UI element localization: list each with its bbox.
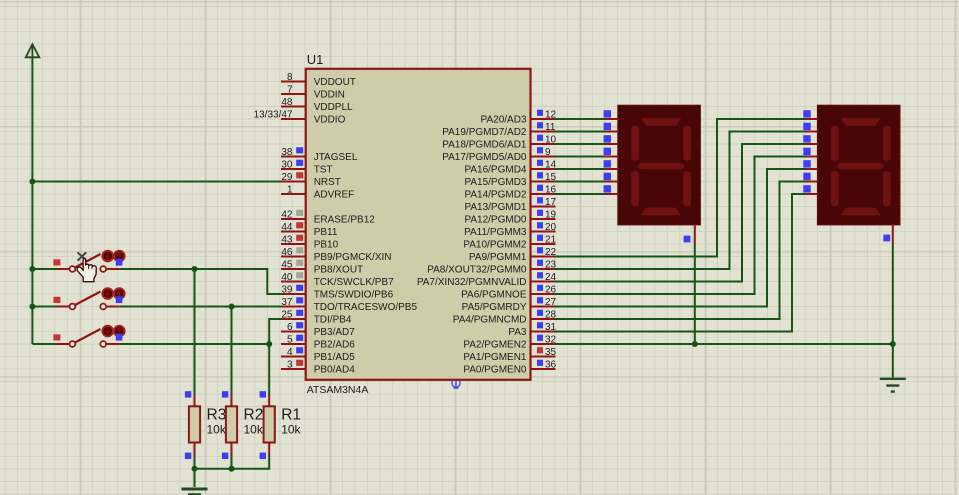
svg-text:11: 11 <box>545 122 556 133</box>
svg-text:VDDPLL: VDDPLL <box>314 102 353 113</box>
pin 5 PB2/AD6 <box>281 335 355 351</box>
pin DS1 segment 1 stub <box>604 110 619 119</box>
svg-text:PA19/PGMD7/AD2: PA19/PGMD7/AD2 <box>442 127 527 138</box>
svg-text:10k: 10k <box>244 423 264 437</box>
switch SW2 <box>53 288 124 309</box>
pin 25 TDI/PB4 <box>281 310 352 326</box>
svg-text:PA11/PGMM3: PA11/PGMM3 <box>464 227 527 238</box>
node junction SW2/R2 <box>229 304 235 310</box>
svg-text:43: 43 <box>281 235 293 246</box>
wire chip to DS1 segment 5 <box>555 168 606 170</box>
pin 35 PA1/PGMEN1 <box>463 347 556 363</box>
wire R3 riser <box>194 269 196 396</box>
resistor R2 10k <box>222 391 264 459</box>
node junction R3 bottom <box>192 466 198 472</box>
svg-text:PA0/PGMEN0: PA0/PGMEN0 <box>463 364 527 375</box>
svg-text:PA18/PGMD6/AD1: PA18/PGMD6/AD1 <box>442 139 527 150</box>
svg-text:44: 44 <box>281 222 293 233</box>
pin DS1 segment 5 stub <box>604 160 619 169</box>
svg-text:PA5/PGMRDY: PA5/PGMRDY <box>462 302 527 313</box>
wire NRST net: bus to pin 29 <box>32 181 282 183</box>
pin 42 ERASE/PB12 <box>281 210 375 226</box>
svg-text:40: 40 <box>281 272 293 283</box>
pin 46 PB9/PGMCK/XIN <box>281 247 392 263</box>
svg-text:19: 19 <box>545 210 557 221</box>
svg-text:35: 35 <box>545 347 557 358</box>
svg-text:20: 20 <box>545 222 557 233</box>
wire chip to DS1 segment 3 <box>555 143 606 145</box>
node junction SW1/R3 <box>192 266 198 272</box>
svg-text:1: 1 <box>287 185 293 196</box>
svg-text:29: 29 <box>281 172 293 183</box>
pin 11 PA19/PGMD7/AD2 <box>442 122 556 138</box>
pin 32 PA2/PGMEN2 <box>463 335 556 351</box>
svg-text:PA8/XOUT32/PGMM0: PA8/XOUT32/PGMM0 <box>427 264 527 275</box>
svg-text:PB9/PGMCK/XIN: PB9/PGMCK/XIN <box>314 252 392 263</box>
pin 10 PA18/PGMD6/AD1 <box>442 135 556 151</box>
svg-text:PA16/PGMD4: PA16/PGMD4 <box>464 164 526 175</box>
wire resistor bottoms bus <box>195 456 270 469</box>
svg-text:9: 9 <box>545 147 551 158</box>
pin 3 PB0/AD4 <box>281 360 355 376</box>
pin 37 TDO/TRACESWO/PB5 <box>281 297 417 313</box>
pin 29 NRST <box>281 172 341 188</box>
pin DS1 segment 7 stub <box>604 185 619 194</box>
switch SW3 <box>53 326 124 347</box>
svg-text:PB10: PB10 <box>314 239 339 250</box>
svg-text:PA4/PGMNCMD: PA4/PGMNCMD <box>453 314 527 325</box>
svg-text:R3: R3 <box>207 407 227 424</box>
svg-text:17: 17 <box>545 197 557 208</box>
svg-text:ERASE/PB12: ERASE/PB12 <box>314 214 376 225</box>
node junction DS1 common <box>692 341 698 347</box>
pin DS2 segment 3 stub <box>803 135 818 144</box>
pin 27 PA5/PGMRDY <box>462 297 557 313</box>
svg-text:PB8/XOUT: PB8/XOUT <box>314 264 363 275</box>
ground symbol right <box>880 379 906 392</box>
svg-text:JTAGSEL: JTAGSEL <box>314 152 358 163</box>
pin DS1 common cathode stub <box>684 225 695 243</box>
wire DS2 common down to common net <box>892 243 894 344</box>
svg-text:PA9/PGMM1: PA9/PGMM1 <box>469 252 527 263</box>
pin 26 PA6/PGMNOE <box>461 285 556 301</box>
node junction R2 bottom <box>229 466 235 472</box>
svg-text:VDDIN: VDDIN <box>314 89 345 100</box>
pin 38 JTAGSEL <box>281 147 358 163</box>
wire chip to DS2 segment 7 <box>555 194 806 332</box>
pin 15 PA15/PGMD3 <box>464 172 556 188</box>
pin DS2 segment 6 stub <box>803 173 818 182</box>
svg-text:30: 30 <box>281 160 293 171</box>
wire to ground bottom <box>194 469 196 487</box>
wire R1 riser <box>268 344 270 396</box>
pin 7 VDDIN <box>281 85 345 101</box>
svg-text:TMS/SWDIO/PB6: TMS/SWDIO/PB6 <box>314 289 394 300</box>
svg-text:PB1/AD5: PB1/AD5 <box>314 352 356 363</box>
wire chip to DS1 segment 1 <box>555 118 606 120</box>
svg-text:13/33/47: 13/33/47 <box>254 110 293 121</box>
pin 39 TMS/SWDIO/PB6 <box>281 285 394 301</box>
pin 40 TCK/SWCLK/PB7 <box>281 272 394 288</box>
pin 22 PA9/PGMM1 <box>469 247 557 263</box>
svg-text:PA20/AD3: PA20/AD3 <box>481 114 527 125</box>
pin DS2 common cathode stub <box>883 225 892 243</box>
pin 20 PA11/PGMM3 <box>464 222 556 238</box>
svg-text:PA1/PGMEN1: PA1/PGMEN1 <box>463 352 527 363</box>
svg-text:PA3: PA3 <box>508 327 527 338</box>
svg-text:6: 6 <box>287 322 293 333</box>
svg-text:VDDOUT: VDDOUT <box>314 77 356 88</box>
pin 1 ADVREF <box>281 185 354 201</box>
svg-text:PB3/AD7: PB3/AD7 <box>314 327 356 338</box>
node junction bus/switch2 <box>29 304 35 310</box>
svg-text:10k: 10k <box>207 423 227 437</box>
svg-text:ATSAM3N4A: ATSAM3N4A <box>307 384 369 396</box>
pin DS2 segment 1 stub <box>803 110 818 119</box>
svg-text:R2: R2 <box>244 407 264 424</box>
pin 6 PB3/AD7 <box>281 322 355 338</box>
wire DS2 common to ground <box>892 344 894 378</box>
svg-text:42: 42 <box>281 210 293 221</box>
svg-text:U1: U1 <box>307 52 324 67</box>
pin 21 PA10/PGMM2 <box>463 235 556 251</box>
7-segment display DS1 <box>618 105 700 225</box>
pin 43 PB10 <box>281 235 339 251</box>
7-segment display DS2 <box>818 105 900 225</box>
pin DS1 segment 2 stub <box>604 123 619 132</box>
pin DS2 segment 2 stub <box>803 123 818 132</box>
svg-text:PB2/AD6: PB2/AD6 <box>314 339 356 350</box>
svg-text:TST: TST <box>314 164 333 175</box>
pin DS2 segment 5 stub <box>803 160 818 169</box>
op-amp U1 ATSAM3N4A microcontroller body <box>306 52 531 396</box>
svg-text:36: 36 <box>545 360 557 371</box>
pin 36 PA0/PGMEN0 <box>463 360 556 376</box>
svg-text:8: 8 <box>287 72 293 83</box>
svg-text:PA17/PGMD5/AD0: PA17/PGMD5/AD0 <box>442 152 527 163</box>
wire DS1 common down to common net <box>694 243 696 344</box>
wire chip to DS2 segment 2 <box>555 132 806 270</box>
wire chip to DS2 segment 6 <box>555 182 806 320</box>
wire R2 riser <box>231 307 233 396</box>
pin 48 VDDPLL <box>281 97 353 113</box>
pin 14 PA16/PGMD4 <box>464 160 556 176</box>
svg-text:3: 3 <box>287 360 293 371</box>
wire chip to DS1 segment 4 <box>555 156 606 158</box>
svg-text:38: 38 <box>281 147 293 158</box>
pin 24 PA7/XIN32/PGMNVALID <box>417 272 557 288</box>
pin 9 PA17/PGMD5/AD0 <box>442 147 555 163</box>
pin 17 PA13/PGMD1 <box>464 197 556 213</box>
wire chip to DS2 segment 4 <box>555 157 806 295</box>
svg-text:4: 4 <box>287 347 293 358</box>
svg-text:45: 45 <box>281 260 293 271</box>
wire chip to DS2 segment 5 <box>555 169 806 307</box>
pin 19 PA12/PGMD0 <box>464 210 556 226</box>
ground symbol bottom <box>182 489 208 495</box>
svg-text:ADVREF: ADVREF <box>314 189 355 200</box>
wire chip to DS1 segment 2 <box>555 131 606 133</box>
wire SW1 to pin 39 <box>120 269 282 294</box>
node junction bus/switch1 <box>29 266 35 272</box>
power terminal VCC arrow <box>26 44 40 59</box>
wire chip to DS2 segment 3 <box>555 144 806 282</box>
resistor R1 10k <box>260 391 302 459</box>
wire common net from chip pin 32 across <box>555 343 893 345</box>
svg-text:PB0/AD4: PB0/AD4 <box>314 364 356 375</box>
svg-text:5: 5 <box>287 335 293 346</box>
pin 12 PA20/AD3 <box>481 110 557 126</box>
node junction SW3/R1 <box>266 341 272 347</box>
node junction bus/NRST <box>29 179 35 185</box>
svg-text:PA14/PGMD2: PA14/PGMD2 <box>464 189 526 200</box>
svg-text:NRST: NRST <box>314 177 341 188</box>
svg-text:7: 7 <box>287 85 293 96</box>
pin 44 PB11 <box>281 222 338 238</box>
wire SW3 to pin 25 <box>120 319 282 344</box>
cursor hand pointer <box>77 258 96 282</box>
svg-text:PA6/PGMNOE: PA6/PGMNOE <box>461 289 527 300</box>
svg-text:PA2/PGMEN2: PA2/PGMEN2 <box>463 339 527 350</box>
wire left vertical bus from power to switches <box>31 60 33 345</box>
cursor X mark <box>78 252 87 260</box>
pin DS2 segment 4 stub <box>803 148 818 157</box>
wire chip to DS1 segment 7 <box>555 193 606 195</box>
pin DS1 segment 3 stub <box>604 135 619 144</box>
svg-text:PA7/XIN32/PGMNVALID: PA7/XIN32/PGMNVALID <box>417 277 527 288</box>
svg-text:PA15/PGMD3: PA15/PGMD3 <box>464 177 526 188</box>
node junction DS2 common <box>890 341 896 347</box>
svg-text:37: 37 <box>281 297 293 308</box>
svg-text:48: 48 <box>281 97 293 108</box>
svg-text:39: 39 <box>281 285 293 296</box>
pin 28 PA4/PGMNCMD <box>453 310 557 326</box>
wire SW2 to pin 37 <box>120 306 282 308</box>
svg-text:PA13/PGMD1: PA13/PGMD1 <box>464 202 526 213</box>
pin 8 VDDOUT <box>281 72 356 88</box>
pin 30 TST <box>281 160 333 176</box>
svg-text:PA12/PGMD0: PA12/PGMD0 <box>464 214 526 225</box>
pin DS1 segment 6 stub <box>604 173 619 182</box>
pin 4 PB1/AD5 <box>281 347 355 363</box>
pin 23 PA8/XOUT32/PGMM0 <box>427 260 556 276</box>
svg-text:TDI/PB4: TDI/PB4 <box>314 314 352 325</box>
svg-text:TCK/SWCLK/PB7: TCK/SWCLK/PB7 <box>314 277 394 288</box>
wire chip to DS2 segment 1 <box>555 119 806 257</box>
pin 31 PA3 <box>508 322 556 338</box>
pin 16 PA14/PGMD2 <box>464 185 556 201</box>
pin 45 PB8/XOUT <box>281 260 363 276</box>
wire bus to SW2 <box>32 306 57 308</box>
svg-text:PB11: PB11 <box>314 227 338 238</box>
switch SW1 <box>53 251 124 272</box>
svg-text:21: 21 <box>545 235 557 246</box>
svg-text:10k: 10k <box>281 423 301 437</box>
wire bus to SW3 <box>32 343 57 345</box>
wire chip to DS1 segment 6 <box>555 181 606 183</box>
svg-text:46: 46 <box>281 247 293 258</box>
svg-text:R1: R1 <box>281 407 301 424</box>
chip anchor marker <box>452 380 460 388</box>
pin 13/33/47 VDDIO <box>254 110 346 126</box>
wire bus to SW1 <box>32 268 57 270</box>
pin DS1 segment 4 stub <box>604 148 619 157</box>
resistor R3 10k <box>185 391 227 459</box>
pin DS2 segment 7 stub <box>803 185 818 194</box>
svg-text:25: 25 <box>281 310 293 321</box>
svg-text:PA10/PGMM2: PA10/PGMM2 <box>463 239 527 250</box>
wire R2 bottom <box>231 456 233 469</box>
svg-text:VDDIO: VDDIO <box>314 114 346 125</box>
svg-text:TDO/TRACESWO/PB5: TDO/TRACESWO/PB5 <box>314 302 418 313</box>
